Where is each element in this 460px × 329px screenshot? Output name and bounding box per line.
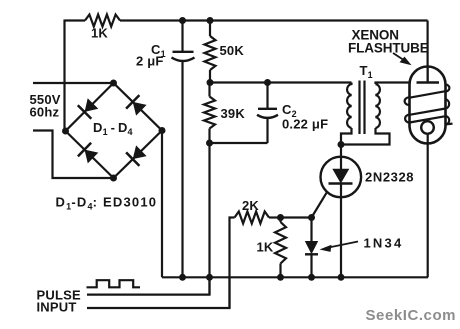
wire bridge edge TR xyxy=(114,83,163,131)
wire top rail left segment xyxy=(65,19,86,21)
arrow 1N34 pointer xyxy=(325,242,358,249)
wire 39K top lead xyxy=(208,83,210,97)
flashtube trigger exit stub xyxy=(446,122,453,125)
node transformer/SCR anode junction xyxy=(338,141,345,148)
node C1 top junction xyxy=(179,17,186,24)
node 39K/C2 bottom junction xyxy=(206,140,213,147)
capacitor C1 xyxy=(173,51,194,53)
SCR internal anode line xyxy=(340,157,342,169)
node C1 bottom xyxy=(179,274,186,281)
node bridge left xyxy=(62,128,69,135)
svg-text:2K: 2K xyxy=(242,198,259,213)
capacitor C2 xyxy=(258,108,277,110)
wire SCR cathode lead xyxy=(340,184,342,278)
node 50K top junction xyxy=(207,17,214,24)
wire C2 top lead xyxy=(266,83,268,109)
svg-text:1K: 1K xyxy=(91,26,108,41)
svg-text:D1-D4: ED3010: D1-D4: ED3010 xyxy=(56,195,158,212)
flashtube anode lead xyxy=(427,67,429,83)
wire pulse line xyxy=(87,277,210,294)
wire 39K bottom lead xyxy=(208,129,210,144)
wire C1 bottom lead xyxy=(181,61,183,278)
wire 1N34 bottom lead xyxy=(310,254,312,277)
svg-text:INPUT: INPUT xyxy=(37,300,77,315)
wire 1K bottom lead xyxy=(279,264,281,278)
SCR internal triangle xyxy=(332,169,349,184)
svg-text:0.22 μF: 0.22 μF xyxy=(282,117,328,132)
wire T1 secondary top lead to flashtube trigger xyxy=(376,83,411,85)
wire SCR anode lead xyxy=(340,145,342,159)
wire flashtube cathode lead xyxy=(427,134,429,277)
flashtube trigger spiral turn 1 (right loop) xyxy=(446,85,450,92)
node C2 top junction xyxy=(264,79,271,86)
svg-text:39K: 39K xyxy=(221,106,246,121)
wire 1K top lead xyxy=(279,218,281,223)
svg-text:1K: 1K xyxy=(257,240,274,255)
wire 2K right lead xyxy=(269,216,281,218)
node bridge top xyxy=(110,80,117,87)
node bridge bottom xyxy=(110,175,117,182)
wire gate rail xyxy=(281,216,312,218)
wire bottom rail xyxy=(162,276,428,278)
flashtube V1 envelope xyxy=(410,67,446,144)
flashtube trigger spiral right loop 3 xyxy=(446,116,450,125)
wire 39K bottom to pulse riser xyxy=(208,143,210,295)
resistor 2K xyxy=(235,212,270,224)
wire 1N34 top lead xyxy=(310,218,312,242)
diode D4 (bridge bottom-right) xyxy=(133,145,147,159)
wire top rail right segment xyxy=(120,19,428,21)
flashtube trigger spiral crossing 1 xyxy=(410,91,446,98)
diode D5 1N34 xyxy=(305,241,318,254)
node SCR cathode bottom xyxy=(338,274,345,281)
flashtube trigger spiral crossing 3 xyxy=(410,116,446,122)
wire left vertical rail xyxy=(63,20,65,132)
wire input riser xyxy=(230,218,235,309)
pulse waveform symbol xyxy=(87,280,141,287)
wire bridge edge BR xyxy=(114,131,163,179)
wire right vertical from top rail to flashtube anode xyxy=(427,21,429,83)
wire 50K bottom lead xyxy=(209,70,211,83)
wire C2 bottom lead xyxy=(266,118,268,143)
svg-text:1N34: 1N34 xyxy=(364,236,404,251)
wire input line xyxy=(87,277,230,308)
SCR internal cathode bar xyxy=(329,182,353,184)
svg-text:2 μF: 2 μF xyxy=(136,54,164,69)
node 39K/pulse bottom xyxy=(206,274,213,281)
diode D2 (bridge top-right) xyxy=(133,102,147,116)
wire C1 top lead xyxy=(181,21,183,52)
svg-text:50K: 50K xyxy=(220,43,245,58)
arrow flashtube pointer xyxy=(393,53,408,63)
resistor 50K xyxy=(205,36,216,70)
wire bridge right node down xyxy=(161,131,163,278)
node 1K bottom xyxy=(277,274,284,281)
flashtube trigger spiral left loop 2 xyxy=(405,115,409,123)
flashtube anode electrode xyxy=(417,81,440,83)
wire 50K top lead xyxy=(209,21,211,37)
wire bridge edge TL xyxy=(66,83,114,131)
svg-text:D1 - D4: D1 - D4 xyxy=(93,120,133,137)
transformer T1 secondary winding xyxy=(376,84,380,128)
diode D1 (bridge top-left) xyxy=(85,98,99,112)
resistor 39K xyxy=(204,97,215,129)
node 1N34 bottom xyxy=(308,274,315,281)
flashtube trigger spiral left loop 1 xyxy=(405,97,410,104)
svg-text:2N2328: 2N2328 xyxy=(365,170,414,185)
wire T1 secondary bottom lead xyxy=(341,128,390,145)
resistor R 1K (top) xyxy=(85,15,120,27)
source 550V 60hz top wire xyxy=(33,82,114,84)
wire C2 bottom to 39K bottom xyxy=(210,142,268,144)
flashtube cathode electrode xyxy=(421,121,434,134)
flashtube trigger spiral crossing 2 xyxy=(410,109,446,115)
wire bridge edge BL xyxy=(66,131,114,178)
source bottom bracket wire xyxy=(33,131,114,179)
node 50K/39K junction xyxy=(207,79,214,86)
wire T1 primary bottom lead xyxy=(341,128,352,145)
diode D3 (bridge bottom-left) xyxy=(85,150,99,164)
SCR Q1 2N2328 body xyxy=(321,157,362,198)
wire SCR gate lead xyxy=(312,193,327,218)
svg-text:60hz: 60hz xyxy=(30,105,60,120)
node gate/1N34 junction xyxy=(308,214,315,221)
svg-text:FLASHTUBE: FLASHTUBE xyxy=(348,41,429,56)
node bridge right xyxy=(159,127,166,134)
flashtube trigger spiral right loop 2 xyxy=(446,99,450,108)
transformer T1 core xyxy=(358,81,360,135)
node 2K/1K junction xyxy=(277,214,284,221)
resistor 1K (gate) xyxy=(275,222,286,264)
transformer T1 primary winding xyxy=(347,83,351,129)
wire mid rail to transformer primary xyxy=(210,81,352,83)
svg-text:SeekIC.com: SeekIC.com xyxy=(366,307,457,324)
